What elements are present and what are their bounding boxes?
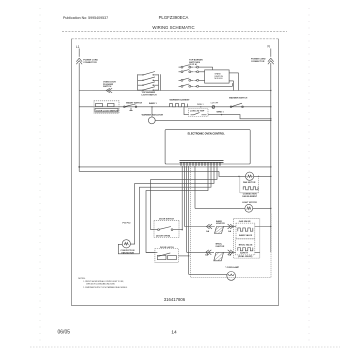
svg-text:GA: GA xyxy=(228,254,232,257)
svg-text:LIGHT MOTOR: LIGHT MOTOR xyxy=(242,202,257,204)
svg-text:06/05: 06/05 xyxy=(58,329,71,335)
svg-text:GA: GA xyxy=(205,254,209,257)
svg-text:WIRING SCHEMATIC: WIRING SCHEMATIC xyxy=(152,25,194,30)
svg-text:DOOR LOCK SWITCH: DOOR LOCK SWITCH xyxy=(96,111,118,113)
svg-text:NOTES:: NOTES: xyxy=(78,278,86,280)
svg-text:FAN MOTOR: FAN MOTOR xyxy=(243,181,256,184)
svg-text:CUTOFF: CUTOFF xyxy=(211,103,219,105)
svg-text:L1: L1 xyxy=(76,45,80,49)
svg-text:SAFETY: SAFETY xyxy=(240,252,249,255)
svg-text:Publication No: 5995409537: Publication No: 5995409537 xyxy=(63,16,108,20)
svg-text:DOOR LATCH: DOOR LATCH xyxy=(160,246,174,249)
svg-text:PLGFZ390ECA: PLGFZ390ECA xyxy=(159,15,189,20)
svg-text:WIRE 1: WIRE 1 xyxy=(197,104,204,106)
svg-text:DOOR SWITCH: DOOR SWITCH xyxy=(159,218,175,220)
svg-text:SMART SWITCH: SMART SWITCH xyxy=(126,101,143,104)
svg-text:ELECTRONIC OVEN CONTROL: ELECTRONIC OVEN CONTROL xyxy=(188,132,226,135)
svg-text:IGNITOR: IGNITOR xyxy=(216,246,225,248)
svg-text:MODULE: MODULE xyxy=(215,78,224,80)
svg-text:WIRE 1: WIRE 1 xyxy=(217,112,225,114)
svg-text:SWITCH: SWITCH xyxy=(103,86,112,88)
svg-text:BAKE VALVE: BAKE VALVE xyxy=(239,234,253,237)
svg-text:(2 OF 4): (2 OF 4) xyxy=(189,63,197,66)
svg-text:P11 P12: P11 P12 xyxy=(123,223,132,225)
svg-text:FAN MOTOR: FAN MOTOR xyxy=(122,252,135,255)
svg-text:CONNECTOR: CONNECTOR xyxy=(83,62,97,64)
svg-text:GA: GA xyxy=(206,230,210,233)
svg-text:LIGHT SWITCH: LIGHT SWITCH xyxy=(142,94,158,96)
svg-text:316417806: 316417806 xyxy=(164,297,186,302)
svg-text:14: 14 xyxy=(171,329,177,335)
svg-text:BAKE 1: BAKE 1 xyxy=(149,102,157,105)
svg-text:LOW LTD TMP: LOW LTD TMP xyxy=(190,110,205,112)
svg-text:WARMER ELEMENT: WARMER ELEMENT xyxy=(170,99,191,102)
svg-text:GAS VALVE: GAS VALVE xyxy=(239,220,251,223)
svg-text:(DUAL VALVE): (DUAL VALVE) xyxy=(238,255,253,258)
svg-text:IGNITOR: IGNITOR xyxy=(216,223,225,225)
svg-text:BROIL VALVE: BROIL VALVE xyxy=(239,243,253,246)
svg-text:* OVEN LAMP: * OVEN LAMP xyxy=(225,266,239,269)
svg-text:WARMER SWITCH: WARMER SWITCH xyxy=(229,96,248,99)
svg-text:GA: GA xyxy=(228,230,232,233)
svg-text:WARMER INDICATOR: WARMER INDICATOR xyxy=(142,114,164,117)
svg-text:(DOOR OPEN): (DOOR OPEN) xyxy=(156,235,170,237)
svg-text:CONNECTOR: CONNECTOR xyxy=(251,61,265,63)
svg-text:FAN ELEMENT: FAN ELEMENT xyxy=(242,195,257,198)
